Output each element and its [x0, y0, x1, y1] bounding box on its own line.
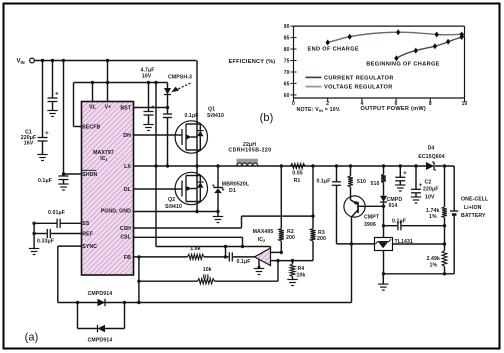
svg-text:CSL: CSL [120, 235, 131, 241]
svg-text:REF: REF [82, 231, 93, 237]
svg-text:0.1μF: 0.1μF [316, 178, 330, 184]
svg-text:CMPT: CMPT [364, 215, 380, 221]
svg-text:CMPD: CMPD [387, 197, 403, 203]
svg-text:3906: 3906 [364, 222, 376, 228]
svg-text:0.1μF: 0.1μF [236, 259, 250, 265]
svg-text:Q1: Q1 [208, 107, 215, 113]
svg-text:1.74k: 1.74k [426, 208, 439, 214]
svg-text:10: 10 [462, 101, 468, 107]
svg-text:IC1: IC1 [100, 156, 108, 162]
svg-text:ONE-CELL: ONE-CELL [461, 197, 489, 203]
svg-text:0.01μF: 0.01μF [48, 210, 65, 216]
svg-text:BATTERY: BATTERY [461, 213, 486, 219]
svg-text:BST: BST [120, 105, 131, 111]
svg-text:R5: R5 [203, 274, 210, 280]
svg-text:SHDN: SHDN [82, 172, 97, 178]
svg-text:R3: R3 [318, 230, 325, 236]
svg-text:MBR0520L: MBR0520L [222, 182, 250, 188]
svg-text:0.05: 0.05 [292, 171, 303, 177]
svg-text:+: + [419, 182, 423, 189]
svg-text:CMPD914: CMPD914 [88, 291, 113, 297]
svg-text:R2: R2 [287, 229, 294, 235]
svg-text:10k: 10k [203, 267, 212, 273]
svg-text:PGND, GND: PGND, GND [101, 209, 131, 215]
svg-text:BEGINNING OF CHARGE: BEGINNING OF CHARGE [366, 61, 439, 67]
svg-text:R4: R4 [298, 266, 305, 272]
svg-text:NOTE: VIN = 10V.: NOTE: VIN = 10V. [297, 107, 342, 113]
svg-text:EC15Q604: EC15Q604 [418, 154, 444, 160]
svg-text:510: 510 [371, 181, 380, 187]
svg-text:2.49k: 2.49k [427, 256, 440, 262]
svg-text:C2: C2 [425, 180, 432, 186]
svg-text:90: 90 [284, 24, 290, 30]
svg-text:510: 510 [357, 179, 366, 185]
svg-text:0.1μF: 0.1μF [392, 218, 406, 224]
svg-text:200: 200 [317, 236, 326, 242]
svg-text:8: 8 [429, 101, 432, 107]
svg-text:10V: 10V [425, 195, 435, 201]
svg-text:VL: VL [89, 104, 97, 110]
svg-text:CURRENT REGULATOR: CURRENT REGULATOR [324, 75, 394, 81]
svg-text:VIN: VIN [17, 59, 25, 65]
svg-text:1%: 1% [429, 214, 437, 220]
svg-text:60: 60 [284, 93, 290, 99]
svg-text:D1: D1 [229, 188, 236, 194]
svg-text:70: 70 [284, 70, 290, 76]
svg-text:CDRH105B-220: CDRH105B-220 [228, 147, 271, 153]
svg-text:(b): (b) [260, 112, 274, 124]
svg-text:TL1431: TL1431 [395, 239, 413, 245]
svg-text:16V: 16V [24, 141, 34, 147]
svg-text:LX: LX [124, 164, 131, 170]
svg-text:914: 914 [389, 203, 398, 209]
svg-text:Q2: Q2 [168, 197, 175, 203]
svg-text:10k: 10k [297, 273, 306, 279]
svg-text:V+: V+ [105, 104, 112, 110]
svg-text:END OF CHARGE: END OF CHARGE [308, 47, 359, 53]
svg-text:CMPD914: CMPD914 [88, 338, 113, 344]
svg-text:SYNC: SYNC [82, 244, 97, 250]
svg-text:DL: DL [124, 187, 132, 193]
svg-text:SECFB: SECFB [82, 124, 100, 130]
svg-text:(a): (a) [25, 331, 39, 343]
svg-text:0.1μF: 0.1μF [38, 178, 52, 184]
svg-text:Si9410: Si9410 [165, 204, 182, 210]
svg-text:200: 200 [286, 235, 295, 241]
svg-text:OUTPUT POWER (mW): OUTPUT POWER (mW) [361, 106, 426, 112]
svg-text:MAX495: MAX495 [253, 229, 274, 235]
svg-text:0.33μF: 0.33μF [37, 239, 54, 245]
svg-text:75: 75 [284, 58, 290, 64]
svg-text:+: + [55, 91, 59, 98]
svg-text:+: + [45, 130, 49, 137]
svg-text:Li+ION: Li+ION [464, 205, 482, 211]
svg-text:CSH: CSH [120, 226, 131, 232]
svg-text:SS: SS [82, 221, 90, 227]
svg-text:IC2: IC2 [258, 237, 266, 243]
svg-text:85: 85 [284, 36, 290, 42]
svg-text:Si9410: Si9410 [207, 113, 224, 119]
svg-text:FB: FB [124, 255, 131, 261]
svg-text:D4: D4 [428, 146, 435, 152]
svg-text:10V: 10V [142, 74, 152, 80]
svg-text:R1: R1 [294, 178, 301, 184]
svg-text:DH: DH [123, 133, 131, 139]
svg-text:1.6k: 1.6k [190, 246, 201, 252]
svg-text:VOLTAGE REGULATOR: VOLTAGE REGULATOR [324, 85, 393, 91]
svg-text:220μF: 220μF [423, 187, 439, 193]
svg-text:+: + [403, 170, 407, 177]
svg-text:EFFICIENCY (%): EFFICIENCY (%) [229, 59, 276, 65]
svg-text:65: 65 [284, 81, 290, 87]
svg-text:80: 80 [284, 47, 290, 53]
svg-text:CMPSH-3: CMPSH-3 [168, 75, 192, 81]
svg-text:1%: 1% [430, 263, 438, 269]
svg-text:0.1μF: 0.1μF [185, 113, 199, 119]
svg-text:0: 0 [292, 101, 295, 107]
